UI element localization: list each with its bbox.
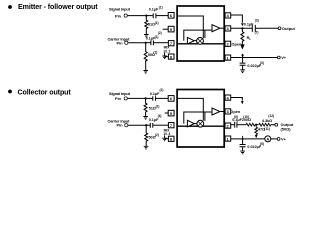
svg-text:(1): (1) xyxy=(155,21,159,25)
svg-text:L: L xyxy=(249,37,251,41)
wire: A1 to X1 xyxy=(194,40,197,42)
pin 3 box (bottom) xyxy=(225,109,231,114)
wire: signal input to node (bottom) xyxy=(127,97,145,99)
wire: C1 to pin 6 xyxy=(156,15,168,17)
node: V+ junction (bottom) xyxy=(242,136,244,140)
op-amp A3 (bottom internal amp) xyxy=(187,120,194,127)
wire: pin 3 to C3 (top) xyxy=(231,27,252,29)
svg-text:Output: Output xyxy=(282,26,295,31)
resistor R4 50ohm (bottom carrier) xyxy=(145,125,159,146)
terminal: V+ (bottom) xyxy=(277,137,286,142)
pin 5 box (bottom) xyxy=(168,110,174,116)
svg-text:(12): (12) xyxy=(268,114,274,118)
ground: bottom carrier xyxy=(144,146,149,149)
section title: Collector output xyxy=(8,88,71,96)
op-amp A4 (bottom output amp) xyxy=(212,108,220,115)
mixer X2 (bottom, circle with X) xyxy=(197,120,204,127)
wire: signal input to node (top) xyxy=(127,15,146,17)
svg-text:Pin: Pin xyxy=(115,96,122,101)
wire: A2 to pin 3 (top) xyxy=(220,27,225,29)
node: carrier junction (bottom) xyxy=(145,124,147,126)
pin 5 stub wire (bottom) xyxy=(165,112,169,114)
wire: ammeter to V+ terminal (bottom) xyxy=(271,138,277,140)
pin 4 box (bottom) xyxy=(225,95,231,100)
wire: C3 to output terminal (top) xyxy=(256,27,278,29)
pin 1 box (bottom) xyxy=(225,136,231,141)
IC U2 body (bottom) xyxy=(177,90,224,148)
capacitor C1 0.1uF (top signal) xyxy=(149,5,163,18)
wire: A3 to X2 xyxy=(194,123,197,125)
terminal: Signal Input (bottom) xyxy=(109,91,131,101)
pin 2 box (bottom) xyxy=(225,123,231,128)
pin 5 box (top) xyxy=(168,26,174,32)
svg-text:0.1μF: 0.1μF xyxy=(244,22,254,26)
capacitor C5 0.1uF (bottom signal) xyxy=(150,88,164,101)
pin 7 box (bottom) xyxy=(168,123,174,128)
svg-text:Signal Input: Signal Input xyxy=(109,7,131,12)
svg-text:(1): (1) xyxy=(153,50,157,54)
pin 1 box (top) xyxy=(225,55,231,60)
pin 2 box (top) xyxy=(225,41,231,46)
svg-text:(7): (7) xyxy=(255,31,259,35)
arrow: pin4 wire down arrow (top) xyxy=(241,23,244,26)
section title: Emitter-follower output xyxy=(8,3,98,11)
resistor R7 47ohm shunt (bottom) xyxy=(255,125,270,135)
node: pins 3/4 junction (top) xyxy=(241,27,243,29)
wire: junction down to C8 (bottom) xyxy=(242,139,244,144)
pin 8 box (top) xyxy=(168,54,174,59)
node: output junction (bottom) xyxy=(255,124,257,126)
svg-text:Pin: Pin xyxy=(117,40,124,45)
IC U1 body (top) xyxy=(177,6,224,61)
node: V+ junction (top) xyxy=(241,54,244,58)
pins 7/8 bias network (top): capacitor + ground xyxy=(162,46,170,59)
capacitor C3 0.1uF (top output) xyxy=(244,19,259,35)
wire: R2 to ground xyxy=(145,60,147,70)
wire: pin 1 to V+ terminal (top) xyxy=(231,57,277,59)
svg-text:(2): (2) xyxy=(155,133,159,137)
wire: pin 1 to ammeter (bottom) xyxy=(231,138,265,140)
pin 5 stub wire (top) xyxy=(158,29,168,35)
svg-text:(4): (4) xyxy=(158,114,162,118)
wire: carrier input to node (top) xyxy=(128,42,146,44)
wire: C5 to pin 6 (bottom) xyxy=(156,97,168,99)
op-amp A2 (top output amp) xyxy=(212,25,220,32)
svg-text:(1): (1) xyxy=(155,35,159,39)
pin 6 box (bottom) xyxy=(168,96,174,102)
ground: bottom signal xyxy=(143,117,148,120)
svg-text:(3): (3) xyxy=(260,61,264,65)
wire: A4 to pin 3 (bottom) xyxy=(220,111,225,113)
svg-text:V+: V+ xyxy=(281,55,287,60)
capacitor C4 0.022uF bypass (top) xyxy=(240,61,264,68)
svg-text:4.3kΩ: 4.3kΩ xyxy=(262,119,272,123)
svg-text:(2): (2) xyxy=(158,31,162,35)
resistor R1 51ohm (top signal) xyxy=(145,16,159,35)
wire: internal signal line (bottom) xyxy=(178,98,204,120)
svg-text:Pin: Pin xyxy=(117,123,124,128)
wire: C2 to pin 7 xyxy=(154,42,169,44)
svg-text:Open: Open xyxy=(232,41,243,46)
wire: pin 4 up-right with arrow (bottom) xyxy=(231,98,242,101)
svg-text:0.1μF: 0.1μF xyxy=(149,7,159,11)
op-amp A1 (top internal amp) xyxy=(187,37,194,44)
resistor R5 200ohm series (bottom) xyxy=(242,115,255,126)
wire: R5 to node (bottom) xyxy=(255,124,258,126)
wire: C7 to R5 (bottom) xyxy=(237,124,246,126)
ground: top signal xyxy=(144,35,149,38)
resistor R6 4.3kohm series (bottom) xyxy=(259,114,274,126)
terminal: Output 50ohm (bottom) xyxy=(275,122,294,132)
svg-text:Open: Open xyxy=(230,109,241,114)
wire: C8 to ground (bottom) xyxy=(242,147,244,151)
wire: carrier input to node (bottom) xyxy=(128,124,146,126)
svg-text:A: A xyxy=(266,137,269,142)
svg-text:(1): (1) xyxy=(160,88,164,92)
node: signal junction (top) xyxy=(145,15,147,17)
capacitor C8 0.022uF bypass (bottom) xyxy=(240,142,264,149)
arrow: RL to V+ rail (top) xyxy=(241,43,244,48)
pin 3 box (top) xyxy=(225,26,231,31)
svg-text:(50Ω): (50Ω) xyxy=(281,127,292,132)
resistor RL (top) xyxy=(241,29,252,43)
wire: node to C2 xyxy=(146,42,151,44)
ammeter M1 (bottom V+ line) xyxy=(265,136,271,142)
resistor R3 51ohm (bottom signal) xyxy=(144,98,159,116)
svg-text:V+: V+ xyxy=(281,137,287,142)
svg-text:Pin: Pin xyxy=(115,13,122,18)
wire: internal signal line (top) xyxy=(178,16,204,38)
svg-text:Signal Input: Signal Input xyxy=(109,91,131,96)
svg-text:0.1μF: 0.1μF xyxy=(150,92,160,96)
wire: pin 2 to C7 (bottom) xyxy=(231,124,234,126)
arrow: R7 to V+ rail (bottom) xyxy=(255,135,258,138)
node: signal junction (bottom) xyxy=(145,97,147,99)
ground: bottom bypass xyxy=(240,151,245,154)
svg-text:(11): (11) xyxy=(264,127,270,131)
wire: node to C6 xyxy=(146,124,150,126)
pin 8 box (bottom) xyxy=(168,136,174,141)
terminal: V+ (top) xyxy=(277,55,286,60)
capacitor C2 0.1uF (top carrier) xyxy=(146,35,159,45)
pins 7/8 bias network (bottom): capacitor + ground xyxy=(162,128,170,141)
wire: pin 4 to junction (top) xyxy=(231,15,243,23)
wire: X1 up to output amp (top) xyxy=(204,30,206,38)
wire: internal bus row (top) xyxy=(178,43,225,45)
terminal: Signal Input (top) xyxy=(109,7,131,19)
svg-text:(1): (1) xyxy=(156,105,160,109)
svg-text:0.1μF: 0.1μF xyxy=(149,118,159,122)
capacitor C6 0.1uF (bottom carrier) xyxy=(149,114,162,128)
node: carrier junction (top) xyxy=(145,42,147,44)
wire: junction down to C4 (top) xyxy=(242,58,244,64)
resistor R2 50ohm (top carrier) xyxy=(144,43,157,61)
pin 7 box (top) xyxy=(168,41,174,46)
svg-text:200Ω: 200Ω xyxy=(242,118,251,122)
wire: node to C5 xyxy=(146,97,153,99)
mixer X1 (top, circle with X) xyxy=(197,38,204,45)
arrow: pin 4 wire arrow (bottom) xyxy=(241,101,244,104)
pin 6 box (top) xyxy=(168,13,174,19)
svg-text:Collector output: Collector output xyxy=(18,88,72,96)
wire: internal loop (top) xyxy=(184,30,212,41)
terminal: Output (top) xyxy=(278,26,295,31)
svg-text:(5): (5) xyxy=(260,142,264,146)
wire: internal loop (bottom) xyxy=(184,112,212,124)
svg-text:Emitter - follower output: Emitter - follower output xyxy=(18,3,98,11)
terminal: Carrier Input (top) xyxy=(108,36,131,45)
svg-text:(3): (3) xyxy=(255,19,259,23)
ground: top carrier xyxy=(143,71,148,74)
svg-text:(1): (1) xyxy=(159,5,163,9)
wire: R6 to output terminal (bottom) xyxy=(271,124,275,126)
wire: X2 up to output amp (bottom) xyxy=(204,112,206,121)
terminal: Carrier Input (bottom) xyxy=(108,119,131,128)
wire: C6 to pin 7 (bottom) xyxy=(153,124,168,126)
wire: C4 to ground (top) xyxy=(242,65,244,69)
wire: internal bus row (bottom) xyxy=(178,125,225,127)
capacitor C7 0.1uF (bottom output) xyxy=(232,115,242,128)
pin 4 box (top) xyxy=(225,13,231,18)
ground: top bypass xyxy=(240,70,245,73)
wire: node to C1 xyxy=(146,15,153,17)
